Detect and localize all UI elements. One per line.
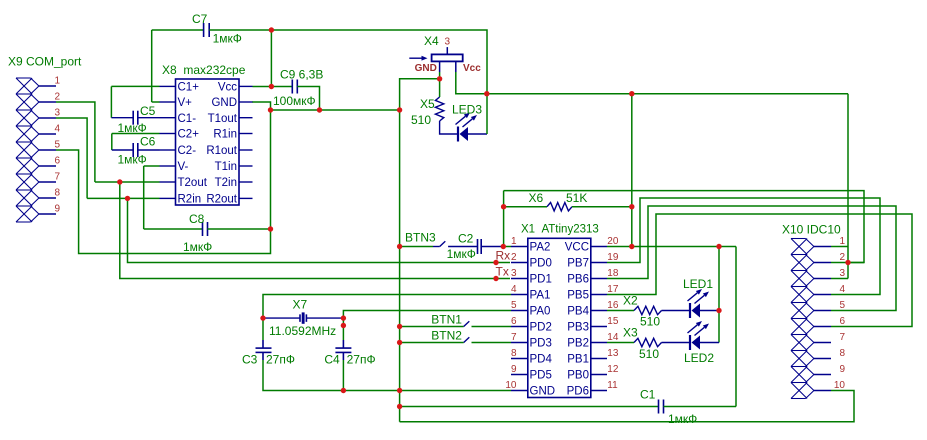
wire PA0 row to crystal — [343, 311, 511, 319]
svg-text:16: 16 — [607, 300, 619, 311]
svg-text:X1 ATtiny2313: X1 ATtiny2313 — [521, 224, 599, 236]
svg-text:C9 6,3В: C9 6,3В — [280, 68, 323, 82]
LED2 right lead — [700, 342, 719, 344]
X1 left pin stub PD5 — [511, 374, 528, 376]
svg-text:51K: 51K — [566, 191, 587, 205]
svg-text:R1in: R1in — [213, 129, 237, 141]
wire V- vertical to C8 — [143, 166, 145, 229]
X4 pin 3 stub — [446, 47, 448, 54]
wire C8 left lead — [144, 228, 203, 230]
svg-text:6: 6 — [54, 155, 60, 166]
X8 left pin stub R2in — [160, 197, 176, 199]
wire C1+ vertical — [110, 86, 112, 117]
wire C4 bottom lead — [342, 352, 344, 360]
connector X4 body — [432, 54, 463, 61]
svg-text:PB3: PB3 — [567, 322, 589, 334]
svg-text:PD6: PD6 — [567, 386, 589, 398]
wire PB6 to X10 pin5 — [607, 206, 896, 311]
svg-text:7: 7 — [54, 171, 60, 182]
svg-text:VCC: VCC — [565, 242, 589, 254]
svg-text:19: 19 — [607, 252, 619, 263]
svg-text:1: 1 — [839, 236, 845, 247]
svg-text:3: 3 — [839, 268, 845, 279]
svg-text:1: 1 — [511, 236, 517, 247]
wire C2+ row — [112, 133, 160, 135]
C2 right lead — [481, 246, 503, 248]
svg-text:X10 IDC10: X10 IDC10 — [782, 223, 841, 237]
svg-text:X3: X3 — [623, 326, 638, 340]
wire X4 GND down — [439, 72, 441, 79]
svg-text:BTN1: BTN1 — [431, 312, 462, 326]
wire GND row 110 — [271, 109, 400, 111]
svg-text:PD0: PD0 — [530, 258, 552, 270]
svg-text:C4: C4 — [324, 352, 340, 366]
svg-text:C1-: C1- — [178, 113, 197, 125]
svg-text:PD2: PD2 — [530, 322, 552, 334]
wire C1+ row — [111, 85, 159, 87]
resistor X3 — [634, 338, 662, 346]
wire C7 right to X4 corner — [209, 30, 487, 94]
svg-text:2: 2 — [511, 252, 517, 263]
svg-text:PB2: PB2 — [567, 338, 589, 350]
X1 right pin stub PB0 — [591, 374, 607, 376]
wire X10 pin3 — [831, 278, 848, 280]
LED LED2 — [689, 335, 691, 350]
X1 left pin stub GND — [511, 390, 528, 392]
junction C2 right reset node — [501, 244, 506, 249]
X1 left pin stub PD1 — [511, 278, 528, 280]
X8 right pin stub T1out — [239, 117, 253, 119]
svg-text:PA1: PA1 — [530, 290, 551, 302]
wire LED supply vertical — [718, 247, 720, 343]
wire X10 pin1 — [831, 246, 848, 248]
svg-text:GND: GND — [530, 386, 556, 398]
X8 left pin stub C1+ — [160, 85, 176, 87]
capacitor C5 — [132, 111, 134, 125]
wire Vcc vertical C7 to Vcc pin — [270, 30, 272, 87]
capacitor C5 right lead — [138, 117, 160, 119]
X5 to LED3 lead — [440, 121, 458, 134]
svg-text:X8 max232cpe: X8 max232cpe — [162, 63, 246, 77]
junction GND at X4 vertical — [397, 107, 402, 112]
wire BTN3 left — [400, 246, 433, 248]
capacitor C7 — [203, 23, 205, 37]
X1 right pin stub VCC — [591, 246, 607, 248]
svg-text:1: 1 — [54, 75, 60, 86]
wire BTN1 to PD2 — [472, 326, 512, 328]
connector X10 pin 3 stub — [814, 278, 831, 280]
svg-text:8: 8 — [54, 187, 60, 198]
X8 right pin stub R2out — [239, 197, 253, 199]
svg-text:20: 20 — [607, 236, 619, 247]
wire C9 right lead down — [297, 87, 319, 111]
connector X9 pin 8 stub — [39, 197, 56, 199]
resistor X2 — [634, 306, 662, 314]
svg-text:27пФ: 27пФ — [266, 352, 295, 366]
svg-text:5: 5 — [54, 139, 60, 150]
svg-text:BTN2: BTN2 — [431, 328, 462, 342]
capacitor C6 — [132, 143, 134, 157]
svg-text:27пФ: 27пФ — [347, 352, 376, 366]
wire Tx net from T2out junction — [120, 182, 510, 279]
svg-text:X6: X6 — [529, 191, 544, 205]
wire reset node to PA2 — [503, 246, 511, 248]
junction on Rx wire — [493, 260, 498, 265]
X8 right pin stub T1in — [239, 165, 253, 167]
wire bottom GND to X10 pin10 — [400, 391, 854, 422]
svg-text:6: 6 — [511, 316, 517, 327]
svg-text:1мкФ: 1мкФ — [213, 32, 242, 46]
junction LED1 at supply vertical — [716, 308, 721, 313]
svg-text:PD1: PD1 — [530, 274, 552, 286]
wire PA1 row to crystal — [263, 295, 511, 319]
svg-text:8: 8 — [839, 348, 845, 359]
svg-text:T2out: T2out — [178, 177, 208, 189]
svg-text:C1+: C1+ — [178, 82, 200, 94]
junction X6 right — [629, 204, 634, 209]
svg-text:PB7: PB7 — [567, 258, 589, 270]
X3 to LED2 lead — [662, 342, 691, 344]
wire C2+ vertical — [111, 134, 113, 151]
svg-text:15: 15 — [607, 316, 619, 327]
crystal X7 left lead — [263, 317, 300, 319]
svg-text:510: 510 — [639, 347, 659, 361]
svg-text:4: 4 — [54, 123, 60, 134]
svg-text:C5: C5 — [140, 104, 156, 118]
svg-text:X4: X4 — [424, 34, 439, 48]
IC X1 ATtiny2313 body — [528, 238, 591, 397]
capacitor C3 — [256, 347, 272, 349]
svg-text:3: 3 — [54, 107, 60, 118]
capacitor C6 left lead — [112, 149, 133, 151]
X8 left pin stub C2+ — [160, 133, 176, 135]
junction X4 GND node — [437, 76, 442, 81]
junction BTN1 on GND vertical — [397, 324, 402, 329]
svg-text:10: 10 — [505, 380, 517, 391]
wire PB5 to X10 pin6 — [607, 214, 912, 327]
connector X9 pin 1 stub — [39, 85, 56, 87]
connector X9 pin 7 stub — [39, 181, 56, 183]
junction C9 bottom — [317, 107, 322, 112]
svg-text:C2: C2 — [458, 231, 474, 245]
junction X10 pin2 — [845, 260, 850, 265]
X4 Vcc pin lead — [455, 61, 457, 72]
svg-text:3: 3 — [511, 268, 517, 279]
svg-text:4: 4 — [839, 284, 845, 295]
X8 left pin stub C1- — [160, 117, 176, 119]
svg-text:1мкФ: 1мкФ — [447, 247, 476, 261]
junction BTN3 on GND vertical — [397, 244, 402, 249]
svg-text:R2in: R2in — [178, 194, 202, 206]
wire C8 right lead — [208, 228, 271, 230]
connector X9 pin 2 stub — [39, 101, 56, 103]
crystal X7 — [299, 314, 301, 322]
resistor X5 — [435, 97, 443, 121]
connector X10 IDC10 body — [791, 238, 806, 240]
svg-text:X7: X7 — [293, 298, 308, 312]
wire main GND vertical — [399, 110, 401, 422]
X8 right pin stub T2in — [239, 181, 253, 183]
svg-text:C8: C8 — [189, 212, 205, 226]
svg-text:PB0: PB0 — [567, 370, 589, 382]
capacitor C5 left lead — [111, 117, 133, 119]
X1 right pin stub PB4 — [591, 310, 607, 312]
junction X6 left — [501, 204, 506, 209]
capacitor C4 — [335, 347, 351, 349]
X2 to LED1 lead — [662, 310, 691, 312]
svg-text:LED1: LED1 — [683, 277, 713, 291]
X1 left pin stub PD3 — [511, 342, 528, 344]
wire X4 GND left and down — [400, 79, 440, 110]
junction C4 on GND row — [341, 388, 346, 393]
wire X6 left lead — [504, 206, 547, 208]
wire C3 top lead — [262, 318, 264, 340]
wire C4 top lead — [342, 318, 344, 340]
connector X10 pin 6 stub — [814, 326, 831, 328]
switch BTN1 — [464, 321, 470, 326]
svg-text:11: 11 — [607, 380, 618, 391]
wire V- row — [144, 165, 160, 167]
svg-text:3: 3 — [445, 37, 451, 48]
wire Vcc vertical to X1 VCC — [631, 94, 633, 247]
junction BTN2 on GND vertical — [397, 340, 402, 345]
svg-text:V+: V+ — [178, 97, 193, 109]
svg-text:LED2: LED2 — [684, 351, 714, 365]
svg-text:X2: X2 — [623, 294, 638, 308]
X1 right pin stub PB1 — [591, 358, 607, 360]
svg-text:PA0: PA0 — [530, 306, 551, 318]
junction VCC row at LED vertical — [716, 244, 721, 249]
wire X4 GND to X5 — [439, 79, 441, 97]
wire Vcc rail — [487, 93, 848, 95]
wire Rx net from R2in junction — [128, 198, 511, 262]
svg-text:LED3: LED3 — [452, 103, 482, 117]
junction VCC row at X6 vertical — [629, 244, 634, 249]
wire X9 pin5 to GND net — [56, 102, 271, 254]
X1 left pin stub PA0 — [511, 310, 528, 312]
wire PB7 to X10 pin4 — [607, 198, 880, 295]
X8 left pin stub C2- — [160, 149, 176, 151]
LED LED3 — [457, 127, 459, 142]
wire X10 pin2 — [831, 262, 864, 264]
svg-text:18: 18 — [607, 268, 619, 279]
svg-text:Vcc: Vcc — [218, 82, 237, 94]
junction GND row at main vertical — [397, 388, 402, 393]
svg-text:X5: X5 — [420, 97, 435, 111]
svg-text:7: 7 — [839, 332, 845, 343]
svg-text:PA2: PA2 — [530, 242, 551, 254]
svg-text:4: 4 — [511, 284, 517, 295]
connector X9 pin 3 stub — [39, 117, 56, 119]
svg-text:510: 510 — [411, 113, 431, 127]
svg-text:PD3: PD3 — [530, 338, 552, 350]
svg-text:5: 5 — [839, 300, 845, 311]
connector X10 pin 9 stub — [814, 374, 831, 376]
wire Vcc rail down right side — [847, 94, 849, 279]
wire R2in row — [87, 197, 159, 199]
wire X6 right lead — [572, 206, 632, 208]
X4 polarity arrow — [409, 57, 421, 59]
svg-text:2: 2 — [839, 252, 845, 263]
connector X9 pin 9 stub — [39, 213, 56, 215]
svg-text:1мкФ: 1мкФ — [668, 412, 697, 426]
wire C7 left vertical to V+ — [151, 30, 153, 102]
wire C3 bottom to GND row — [262, 352, 264, 360]
X1 left pin stub PA1 — [511, 294, 528, 296]
svg-text:17: 17 — [607, 284, 619, 295]
wire V+ row — [152, 101, 160, 103]
capacitor C1 — [658, 400, 660, 414]
LED1 right lead — [700, 310, 719, 312]
connector X9 COM_port body — [16, 77, 31, 79]
svg-text:PB6: PB6 — [567, 274, 589, 286]
X1 right pin stub PB7 — [591, 262, 607, 264]
wire X9 pin2 to T2out — [56, 102, 95, 182]
svg-text:R2out: R2out — [206, 194, 237, 206]
X8 left pin stub T2out — [160, 181, 176, 183]
svg-text:X9 COM_port: X9 COM_port — [8, 55, 82, 69]
junction C8 right on GND vertical — [268, 226, 273, 231]
svg-text:13: 13 — [607, 348, 619, 359]
svg-text:BTN3: BTN3 — [405, 231, 436, 245]
X1 left pin stub PD2 — [511, 326, 528, 328]
svg-text:14: 14 — [607, 332, 619, 343]
svg-text:7: 7 — [511, 332, 517, 343]
wire PB4 to X2 — [607, 310, 634, 312]
svg-text:1мкФ: 1мкФ — [118, 153, 147, 167]
wire BTN2 left — [400, 342, 464, 344]
wire PB2 to X3 — [607, 342, 634, 344]
junction Vcc node — [269, 84, 274, 89]
svg-text:GND: GND — [211, 97, 237, 109]
connector X10 pin 8 stub — [814, 358, 831, 360]
capacitor C6 right lead — [138, 149, 160, 151]
wire VCC to C1 vertical — [735, 247, 737, 407]
junction Vcc rail at X6 vertical — [629, 91, 634, 96]
wire C1 left lead — [400, 406, 659, 408]
svg-text:2: 2 — [54, 91, 60, 102]
X8 right pin stub R1out — [239, 149, 253, 151]
svg-text:GND: GND — [415, 63, 437, 74]
connector X10 pin 1 stub — [814, 246, 831, 248]
connector X10 pin 10 stub — [814, 390, 831, 392]
capacitor C8 — [202, 222, 204, 236]
junction C1 left on GND vertical — [397, 404, 402, 409]
wire X4 Vcc down and right — [456, 72, 487, 94]
X1 left pin stub PA2 — [511, 246, 528, 248]
svg-text:T1in: T1in — [215, 161, 237, 173]
svg-text:9: 9 — [839, 364, 845, 375]
X1 left pin stub PD0 — [511, 262, 528, 264]
wire X9 pin3 to R2in — [56, 118, 87, 198]
svg-text:PD5: PD5 — [530, 370, 552, 382]
X8 right pin stub GND — [239, 101, 253, 103]
junction crystal right — [341, 315, 346, 320]
wire Vcc pin to junction — [253, 86, 293, 88]
connector X10 pin 7 stub — [814, 342, 831, 344]
capacitor C9 — [291, 80, 293, 94]
X8 right pin stub Vcc — [239, 85, 253, 87]
svg-text:11.0592MHz: 11.0592MHz — [269, 324, 336, 338]
svg-text:C1: C1 — [640, 388, 656, 402]
junction crystal left — [260, 315, 265, 320]
wire C7 left lead — [152, 29, 204, 31]
junction R2in wire — [125, 196, 130, 201]
wire BTN3 to C2 — [448, 246, 477, 248]
svg-text:PD4: PD4 — [530, 354, 553, 366]
wire VCC row — [607, 246, 736, 248]
junction T2out wire — [117, 179, 122, 184]
svg-text:PB1: PB1 — [567, 354, 589, 366]
svg-text:Vcc: Vcc — [463, 63, 481, 74]
svg-text:510: 510 — [640, 315, 660, 329]
svg-text:R1out: R1out — [206, 145, 237, 157]
svg-text:PB4: PB4 — [567, 306, 589, 318]
svg-text:C2-: C2- — [178, 145, 197, 157]
X8 left pin stub V- — [160, 165, 176, 167]
connector X10 pin 5 stub — [814, 310, 831, 312]
X1 right pin stub PB5 — [591, 294, 607, 296]
svg-text:9: 9 — [511, 364, 517, 375]
svg-text:1мкФ: 1мкФ — [183, 240, 212, 254]
junction GND corner — [268, 107, 273, 112]
junction below crystal right — [341, 323, 346, 328]
junction C7 right at Vcc vertical — [269, 27, 274, 32]
svg-text:8: 8 — [511, 348, 517, 359]
X4 GND pin lead — [439, 61, 441, 72]
svg-text:C6: C6 — [140, 134, 156, 148]
X1 right pin stub PD6 — [591, 390, 607, 392]
svg-text:T2in: T2in — [215, 177, 237, 189]
svg-text:10: 10 — [834, 380, 846, 391]
svg-text:6: 6 — [839, 316, 845, 327]
wire reset vertical — [503, 191, 505, 247]
connector X9 pin 6 stub — [39, 165, 56, 167]
X8 left pin stub V+ — [160, 101, 176, 103]
resistor X6 — [547, 203, 572, 211]
wire LED3 to Vcc rail — [486, 94, 488, 134]
wire BTN1 left — [400, 326, 464, 328]
IC X8 max232cpe body — [176, 79, 240, 205]
svg-text:C2+: C2+ — [178, 129, 200, 141]
wire BTN2 to PD3 — [472, 342, 512, 344]
connector X9 pin 5 stub — [39, 149, 56, 151]
junction Vcc rail node — [484, 91, 489, 96]
svg-text:PB5: PB5 — [567, 290, 589, 302]
svg-text:C7: C7 — [192, 12, 208, 26]
svg-text:C3: C3 — [242, 352, 258, 366]
svg-text:9: 9 — [54, 203, 60, 214]
X1 right pin stub PB3 — [591, 326, 607, 328]
svg-text:12: 12 — [607, 364, 619, 375]
switch BTN2 — [464, 337, 470, 342]
svg-text:T1out: T1out — [208, 113, 238, 125]
svg-text:100мкФ: 100мкФ — [273, 94, 316, 108]
X1 right pin stub PB2 — [591, 342, 607, 344]
crystal X7 right lead — [307, 317, 343, 319]
svg-text:5: 5 — [511, 300, 517, 311]
X8 right pin stub R1in — [239, 133, 253, 135]
X1 right pin stub PB6 — [591, 278, 607, 280]
wire T2out row — [95, 181, 160, 183]
switch BTN3 — [440, 241, 446, 246]
wire reset row to X10 — [504, 191, 864, 263]
X1 left pin stub PD4 — [511, 358, 528, 360]
junction on Tx wire — [493, 276, 498, 281]
connector X10 pin 2 stub — [814, 262, 831, 264]
connector X10 pin 4 stub — [814, 294, 831, 296]
svg-text:V-: V- — [178, 161, 189, 173]
